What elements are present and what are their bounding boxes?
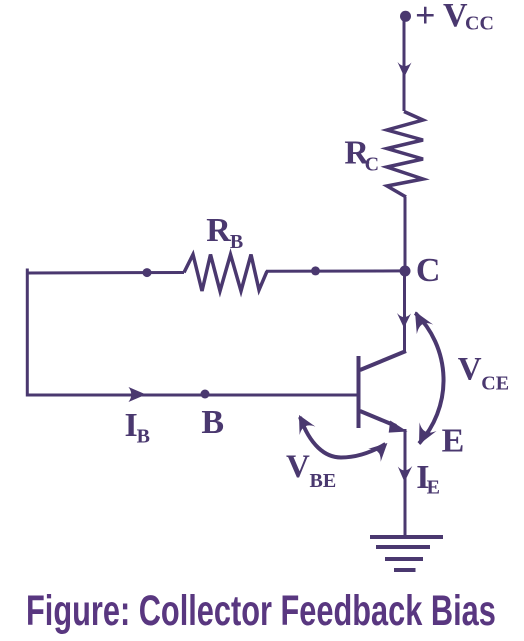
wire RB to left rail [27,271,184,275]
transistor Q1 collector lead [360,351,406,370]
junction dot B [201,390,210,399]
arrow IE on emitter wire [398,466,413,482]
svg-text:E: E [427,477,440,499]
left rail wire [26,269,29,397]
svg-text:C: C [416,252,441,289]
VCE curved arrow [415,312,444,445]
svg-text:C: C [365,154,379,176]
svg-text:B: B [201,404,224,441]
label VCE [458,352,509,395]
emitter wire [404,429,407,537]
svg-text:B: B [137,425,150,447]
resistor RB [184,255,267,292]
svg-text:V: V [458,352,482,388]
svg-text:CE: CE [481,373,509,395]
label RC [344,134,379,175]
wire node C to RB [266,269,405,272]
svg-text:V: V [286,449,310,485]
label IE [416,459,440,499]
arrow into collector [397,313,411,328]
wire VCC down to RC [403,16,406,111]
transistor Q1 emitter arrowhead [389,421,408,433]
svg-text:CC: CC [465,13,494,35]
ground [370,537,443,570]
wire RC to node C [404,197,407,271]
svg-text:B: B [230,231,243,253]
label IB [125,407,150,447]
svg-text:R: R [206,212,231,249]
svg-text:E: E [442,423,465,460]
node VCC [400,11,411,22]
svg-text:BE: BE [310,470,337,492]
junction dot on left wire [143,268,152,277]
label VBE [286,449,336,492]
junction dot right of RB [311,266,320,275]
transistor Q1 emitter lead [360,411,396,426]
transistor Q1 base bar [357,356,361,428]
arrow IB on base wire [129,387,147,402]
caption Figure: Collector Feedback Bias [26,588,524,635]
wire node C down to collector [403,271,406,351]
label + VCC [415,0,494,35]
VBE curved arrow [299,415,387,462]
base wire [27,394,357,397]
label RB [206,212,243,253]
node C junction dot [400,266,411,277]
svg-text:+: + [415,0,436,35]
resistor RC [387,112,423,198]
current arrow toward RC [398,62,412,77]
